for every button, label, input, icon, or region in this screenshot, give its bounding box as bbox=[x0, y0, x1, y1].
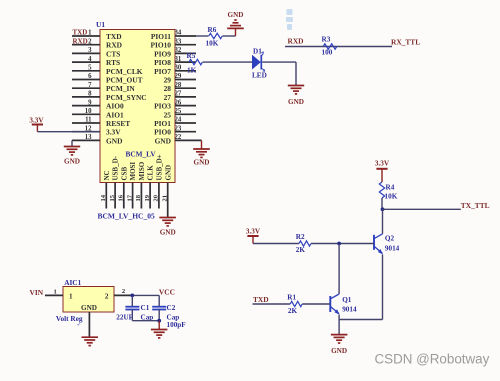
svg-text:3.3V: 3.3V bbox=[106, 128, 121, 137]
svg-text:NC: NC bbox=[103, 170, 111, 180]
svg-text:RXD: RXD bbox=[73, 37, 88, 45]
svg-text:10K: 10K bbox=[385, 193, 398, 201]
svg-text:MISO: MISO bbox=[138, 161, 146, 180]
svg-text:GND: GND bbox=[164, 165, 172, 181]
svg-text:RXD: RXD bbox=[106, 41, 122, 50]
svg-text:GND: GND bbox=[64, 158, 80, 166]
wire R2 to Q2 base bbox=[311, 243, 374, 245]
pin 3 CTS bbox=[72, 52, 100, 54]
svg-text:100: 100 bbox=[322, 49, 333, 57]
pin 17 MOSI bbox=[132, 183, 134, 209]
svg-text:Q2: Q2 bbox=[385, 235, 395, 243]
wire R5 to D1 bbox=[203, 61, 252, 63]
svg-text:R3: R3 bbox=[322, 35, 331, 43]
resistor R5 1K bbox=[189, 59, 203, 64]
svg-text:BCM_LV_HC_05: BCM_LV_HC_05 bbox=[98, 212, 155, 221]
svg-text:22UF: 22UF bbox=[116, 313, 133, 321]
wire 3.3V to R2 bbox=[253, 243, 299, 245]
wire node to Q2 collector bbox=[382, 209, 384, 234]
pin 4 RTS bbox=[72, 61, 100, 63]
svg-text:GND: GND bbox=[155, 136, 171, 145]
pin 26 PIO3 bbox=[175, 105, 196, 107]
wire pin22 to ground bbox=[201, 140, 203, 148]
wire node to TX_TTL bbox=[383, 208, 461, 210]
pin 34 PIO11 bbox=[175, 35, 196, 37]
svg-text:AIO0: AIO0 bbox=[106, 102, 124, 111]
wire Q1 emitter to ground bbox=[338, 315, 340, 335]
svg-text:27: 27 bbox=[164, 93, 172, 102]
svg-text:6: 6 bbox=[88, 73, 92, 80]
svg-text:C1: C1 bbox=[141, 304, 150, 312]
svg-text:5: 5 bbox=[88, 65, 92, 72]
resistor R1 2K bbox=[290, 301, 302, 306]
transistor Q2 9014 bbox=[373, 235, 375, 250]
svg-text:GND: GND bbox=[228, 11, 244, 19]
pin 9 AIO0 bbox=[72, 105, 100, 107]
ground GND (above R6) bbox=[227, 27, 244, 29]
regulator AIC1 body bbox=[63, 287, 114, 313]
svg-text:2: 2 bbox=[122, 288, 126, 295]
resistor R2 2K bbox=[299, 241, 311, 246]
svg-text:10K: 10K bbox=[206, 39, 219, 47]
faint blue watermark bbox=[286, 9, 293, 30]
svg-text:24: 24 bbox=[175, 117, 182, 124]
node TX_TTL junction bbox=[381, 207, 385, 211]
pin 6 PCM_OUT bbox=[72, 79, 100, 81]
pin 31 PIO8 bbox=[175, 61, 196, 63]
svg-text:1: 1 bbox=[69, 292, 73, 300]
pin 8 PCM_SYNC bbox=[72, 96, 100, 98]
diode D1 LED bbox=[252, 55, 261, 70]
pin 12 3.3V bbox=[72, 131, 100, 133]
resistor R3 100 bbox=[323, 44, 337, 49]
svg-text:9014: 9014 bbox=[385, 245, 400, 253]
wire Q2 emitter down and left bbox=[382, 255, 384, 320]
svg-text:R6: R6 bbox=[208, 26, 217, 34]
node C1 top bbox=[130, 294, 134, 298]
pin 25 25 bbox=[175, 113, 196, 115]
ground GND (emitters) bbox=[331, 334, 348, 336]
svg-text:CSB: CSB bbox=[120, 167, 128, 181]
pin 19 CLK bbox=[149, 183, 151, 209]
pin 15 USB_D- bbox=[114, 183, 116, 209]
svg-text:MOSI: MOSI bbox=[129, 162, 137, 181]
svg-text:2K: 2K bbox=[288, 307, 298, 315]
pin 33 PIO10 bbox=[175, 44, 196, 46]
svg-text:RESET: RESET bbox=[106, 119, 130, 128]
svg-text:3.3V: 3.3V bbox=[29, 116, 44, 124]
svg-text:26: 26 bbox=[175, 99, 182, 106]
svg-text:VCC: VCC bbox=[159, 287, 175, 296]
svg-text:TXD: TXD bbox=[106, 32, 122, 41]
svg-text:GND: GND bbox=[194, 159, 210, 167]
svg-text:PIO0: PIO0 bbox=[154, 128, 171, 137]
svg-text:17: 17 bbox=[126, 194, 133, 201]
pin 10 AIO1 bbox=[72, 113, 100, 115]
node C2 bottom bbox=[157, 319, 161, 323]
svg-text:U1: U1 bbox=[96, 20, 105, 29]
svg-text:ᵣₑᵍ: ᵣₑᵍ bbox=[77, 321, 81, 326]
pin 2 RXD bbox=[72, 44, 100, 46]
svg-text:USB_D-: USB_D- bbox=[112, 155, 120, 180]
svg-text:Q1: Q1 bbox=[342, 296, 352, 304]
pin 11 RESET bbox=[72, 122, 100, 124]
svg-text:8: 8 bbox=[88, 91, 92, 98]
svg-text:GND: GND bbox=[106, 136, 122, 145]
svg-text:28: 28 bbox=[175, 82, 182, 89]
svg-text:2: 2 bbox=[88, 38, 92, 45]
svg-text:1K: 1K bbox=[187, 67, 197, 75]
pin 23 PIO0 bbox=[175, 131, 196, 133]
pin 14 NC bbox=[105, 183, 107, 209]
svg-text:RXD: RXD bbox=[288, 37, 304, 46]
pin 1 TXD bbox=[72, 35, 100, 37]
svg-text:RX_TTL: RX_TTL bbox=[391, 37, 420, 46]
svg-text:AIO1: AIO1 bbox=[106, 110, 124, 119]
pin 2 (AIC1 output) bbox=[114, 294, 132, 296]
pin 28 28 bbox=[175, 87, 196, 89]
svg-text:CTS: CTS bbox=[106, 49, 120, 58]
wire TXD to R1 bbox=[253, 303, 291, 305]
svg-text:27: 27 bbox=[175, 91, 182, 98]
svg-text:PIO11: PIO11 bbox=[151, 32, 171, 41]
wire pin13 to ground bbox=[71, 140, 73, 146]
svg-text:30: 30 bbox=[175, 65, 182, 72]
svg-text:PIO8: PIO8 bbox=[154, 58, 171, 67]
resistor R6 10K bbox=[209, 33, 222, 38]
wire 3.3V to pin 12 bbox=[37, 131, 100, 133]
svg-text:32: 32 bbox=[175, 47, 182, 54]
svg-text:GND: GND bbox=[160, 229, 176, 237]
svg-text:15: 15 bbox=[109, 194, 116, 201]
svg-text:31: 31 bbox=[175, 56, 182, 63]
pin 16 CSB bbox=[123, 183, 125, 209]
transistor Q1 9014 bbox=[329, 296, 331, 312]
svg-text:AIC1: AIC1 bbox=[64, 278, 81, 287]
svg-text:TXD: TXD bbox=[73, 29, 88, 37]
svg-text:PIO3: PIO3 bbox=[154, 102, 171, 111]
svg-text:29: 29 bbox=[175, 73, 182, 80]
wire AIC1 gnd pin bbox=[88, 312, 90, 337]
svg-text:R2: R2 bbox=[296, 233, 305, 241]
pin 24 PIO1 bbox=[175, 122, 196, 124]
capacitor C2 100pF bbox=[158, 295, 160, 306]
svg-text:18: 18 bbox=[135, 194, 142, 201]
svg-text:PIO10: PIO10 bbox=[150, 41, 171, 50]
svg-text:D1: D1 bbox=[253, 48, 262, 56]
svg-text:GND: GND bbox=[81, 304, 97, 312]
svg-text:1: 1 bbox=[88, 30, 92, 37]
svg-text:GND: GND bbox=[288, 98, 304, 106]
svg-text:25: 25 bbox=[175, 108, 182, 115]
pin 7 PCM_IN bbox=[72, 87, 100, 89]
svg-text:25: 25 bbox=[164, 110, 172, 119]
svg-text:34: 34 bbox=[175, 30, 182, 37]
pin 18 MISO bbox=[140, 183, 142, 209]
pin 5 PCM_CLK bbox=[72, 70, 100, 72]
svg-text:USB_D+: USB_D+ bbox=[156, 154, 164, 180]
pin 30 PIO7 bbox=[175, 70, 196, 72]
svg-text:20: 20 bbox=[153, 194, 160, 201]
svg-text:16: 16 bbox=[118, 194, 125, 201]
svg-text:CLK: CLK bbox=[147, 165, 155, 181]
ground GND (AIC1) bbox=[82, 336, 99, 338]
capacitor C1 22UF bbox=[131, 295, 133, 306]
svg-text:14: 14 bbox=[100, 194, 107, 201]
svg-text:9014: 9014 bbox=[342, 306, 357, 314]
op-amp U1 body (BCM_LV module) bbox=[100, 30, 175, 183]
svg-text:BCM_LV: BCM_LV bbox=[126, 150, 157, 159]
svg-text:28: 28 bbox=[164, 84, 172, 93]
svg-text:23: 23 bbox=[175, 125, 182, 132]
ground GND (below D1) bbox=[288, 85, 304, 87]
svg-text:29: 29 bbox=[164, 76, 172, 85]
svg-text:LED: LED bbox=[252, 72, 267, 80]
ground GND (caps) bbox=[151, 329, 168, 331]
pin 27 27 bbox=[175, 96, 196, 98]
node base junction bbox=[337, 242, 341, 246]
svg-text:PCM_IN: PCM_IN bbox=[106, 84, 135, 93]
wire R1 to Q1 base bbox=[302, 303, 330, 305]
svg-text:10: 10 bbox=[85, 108, 92, 115]
pin 32 PIO9 bbox=[175, 52, 196, 54]
svg-text:PCM_OUT: PCM_OUT bbox=[106, 76, 143, 85]
wire pin2 to caps bbox=[132, 294, 159, 296]
svg-text:33: 33 bbox=[175, 38, 182, 45]
ground GND (pin 22) bbox=[193, 148, 210, 150]
svg-text:100pF: 100pF bbox=[167, 321, 187, 329]
svg-text:CSDN @Robotway: CSDN @Robotway bbox=[375, 352, 490, 367]
svg-text:TX_TTL: TX_TTL bbox=[461, 201, 490, 210]
ground GND (pin 13) bbox=[64, 146, 80, 148]
wire caps bottom bbox=[132, 320, 159, 322]
svg-text:R4: R4 bbox=[386, 184, 395, 192]
svg-text:R1: R1 bbox=[287, 294, 296, 302]
svg-text:2K: 2K bbox=[296, 246, 306, 254]
svg-text:9: 9 bbox=[88, 99, 92, 106]
svg-text:GND: GND bbox=[331, 347, 347, 355]
svg-text:3: 3 bbox=[88, 47, 92, 54]
svg-text:PCM_CLK: PCM_CLK bbox=[106, 67, 143, 76]
wire D1 to ground bbox=[262, 61, 296, 63]
wire R4 to node bbox=[381, 198, 383, 209]
svg-text:13: 13 bbox=[85, 134, 92, 141]
pin 1 (AIC1 input) bbox=[45, 294, 63, 296]
wire node to Q1 collector bbox=[338, 244, 340, 295]
svg-text:19: 19 bbox=[144, 194, 151, 201]
svg-text:PIO7: PIO7 bbox=[154, 67, 171, 76]
svg-text:3.3V: 3.3V bbox=[246, 227, 261, 235]
svg-text:PIO9: PIO9 bbox=[154, 49, 171, 58]
pin 21 GND bbox=[167, 183, 169, 218]
svg-text:7: 7 bbox=[88, 82, 92, 89]
svg-text:PIO1: PIO1 bbox=[154, 119, 171, 128]
pin 20 USB_D+ bbox=[158, 183, 160, 209]
svg-text:R5: R5 bbox=[187, 52, 196, 60]
resistor R4 10K bbox=[379, 182, 384, 198]
svg-text:PCM_SYNC: PCM_SYNC bbox=[106, 93, 147, 102]
svg-text:21: 21 bbox=[162, 195, 169, 202]
svg-text:TXD: TXD bbox=[253, 295, 269, 304]
svg-text:C2: C2 bbox=[167, 304, 176, 312]
svg-text:11: 11 bbox=[85, 117, 92, 124]
pin 22 GND bbox=[175, 139, 202, 141]
svg-text:4: 4 bbox=[88, 56, 92, 63]
svg-text:RTS: RTS bbox=[106, 58, 120, 67]
wire to ground bbox=[158, 321, 160, 330]
svg-text:Cap: Cap bbox=[167, 313, 180, 321]
wire R6 to ground bbox=[222, 35, 235, 37]
wire RXD to RX_TTL bbox=[285, 46, 392, 48]
pin 29 29 bbox=[175, 79, 196, 81]
wire pin34 to R6 bbox=[196, 35, 209, 37]
svg-text:2: 2 bbox=[105, 292, 109, 300]
svg-text:3.3V: 3.3V bbox=[375, 160, 390, 168]
svg-text:22: 22 bbox=[175, 134, 182, 141]
svg-text:VIN: VIN bbox=[30, 288, 44, 297]
pin 13 GND bbox=[72, 139, 100, 141]
ground GND (pin 21) bbox=[159, 217, 176, 219]
svg-text:1: 1 bbox=[54, 289, 57, 296]
